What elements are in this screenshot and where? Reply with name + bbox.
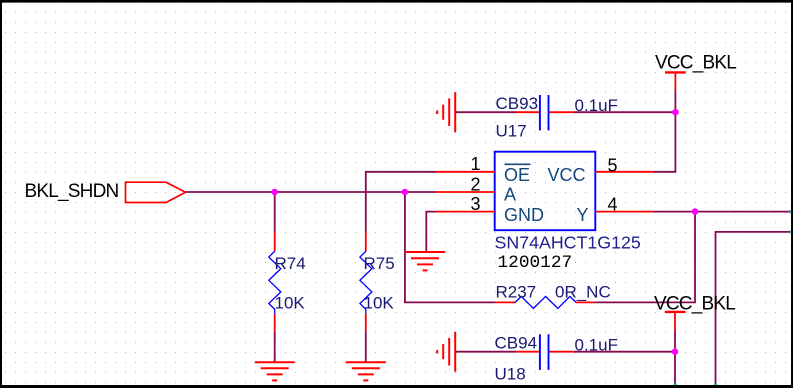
svg-text:3: 3 <box>471 194 481 214</box>
ground left of CB94 <box>437 332 455 372</box>
svg-text:10K: 10K <box>275 294 306 313</box>
port BKL_SHDN <box>25 181 186 203</box>
svg-text:1: 1 <box>471 154 481 174</box>
resistor R237 <box>496 283 611 309</box>
pin 2 stub <box>436 174 495 194</box>
wire junction down to bottom edge <box>674 352 676 385</box>
wire junction to R74 <box>274 192 276 232</box>
off-sheet tick bottom right wire <box>714 383 717 385</box>
resistor R74 <box>269 231 306 331</box>
off-sheet tick bottom VCC wire <box>673 383 676 385</box>
wire pin4 to right edge <box>654 211 791 213</box>
op-amp U17 buffer SN74AHCT1G125 <box>495 152 641 273</box>
svg-text:0R_NC: 0R_NC <box>555 283 611 302</box>
off-sheet tick right corner wire <box>790 230 792 233</box>
wire R237 right to junction <box>594 212 695 303</box>
svg-text:1200127: 1200127 <box>498 253 573 273</box>
svg-text:U17: U17 <box>496 121 527 140</box>
junction node VCC bottom <box>672 348 679 355</box>
wire junction up to VCC stem bottom <box>674 331 676 352</box>
ground below R75 <box>346 362 386 380</box>
resistor R75 <box>360 231 395 331</box>
svg-text:VCC_BKL: VCC_BKL <box>655 52 736 73</box>
svg-text:2: 2 <box>471 174 481 194</box>
svg-text:R75: R75 <box>364 254 395 273</box>
wire CB93 to VCC junction <box>574 111 676 113</box>
svg-text:R237: R237 <box>496 283 537 302</box>
wire junction down to R237 left <box>405 192 496 302</box>
wire ground to CB94 <box>455 351 516 353</box>
junction node BKL_SHDN/R237 <box>402 189 409 196</box>
wire CB94 to VCC junction <box>574 351 675 353</box>
svg-text:OE: OE <box>504 165 530 185</box>
ground left of CB93 <box>437 92 455 132</box>
svg-text:R74: R74 <box>275 254 306 273</box>
pin 4 stub <box>595 194 654 214</box>
ground below R74 <box>255 362 295 380</box>
svg-text:VCC_BKL: VCC_BKL <box>654 293 735 314</box>
svg-text:VCC: VCC <box>548 165 586 185</box>
wire pin3 to ground <box>426 212 436 252</box>
pin 5 stub <box>595 155 654 175</box>
wire junction up to VCC stem <box>674 91 676 112</box>
pin 3 stub <box>436 194 495 214</box>
wire ground to CB93 <box>455 111 516 113</box>
wire R75 to ground <box>365 331 367 362</box>
wire right edge corner to bottom <box>716 232 792 385</box>
junction node BKL_SHDN/R74 <box>271 189 278 196</box>
svg-text:U18: U18 <box>495 364 526 383</box>
svg-text:CB94: CB94 <box>495 333 538 352</box>
svg-text:4: 4 <box>608 194 618 214</box>
svg-text:10K: 10K <box>364 294 395 313</box>
wire R74 to ground <box>274 331 276 362</box>
junction node pin4/R237 <box>692 208 699 215</box>
svg-text:5: 5 <box>608 155 618 175</box>
wire port to pin2 <box>186 191 437 193</box>
wire pin5 up to VCC junction <box>654 112 675 172</box>
svg-text:Y: Y <box>577 205 589 225</box>
wire pin1 to R75 <box>366 172 436 232</box>
svg-text:BKL_SHDN: BKL_SHDN <box>25 181 119 202</box>
off-sheet tick right pin4 wire <box>790 210 792 213</box>
svg-text:CB93: CB93 <box>496 94 539 113</box>
power VCC_BKL top <box>655 52 736 91</box>
power VCC_BKL bottom <box>654 293 735 331</box>
capacitor CB94 <box>495 333 618 383</box>
svg-text:GND: GND <box>504 205 544 225</box>
svg-text:A: A <box>504 185 516 205</box>
ground at pin3 GND <box>405 252 445 270</box>
capacitor CB93 <box>496 94 618 140</box>
junction node VCC top <box>672 109 679 116</box>
pin 1 stub <box>436 154 495 174</box>
svg-text:SN74AHCT1G125: SN74AHCT1G125 <box>495 232 641 252</box>
